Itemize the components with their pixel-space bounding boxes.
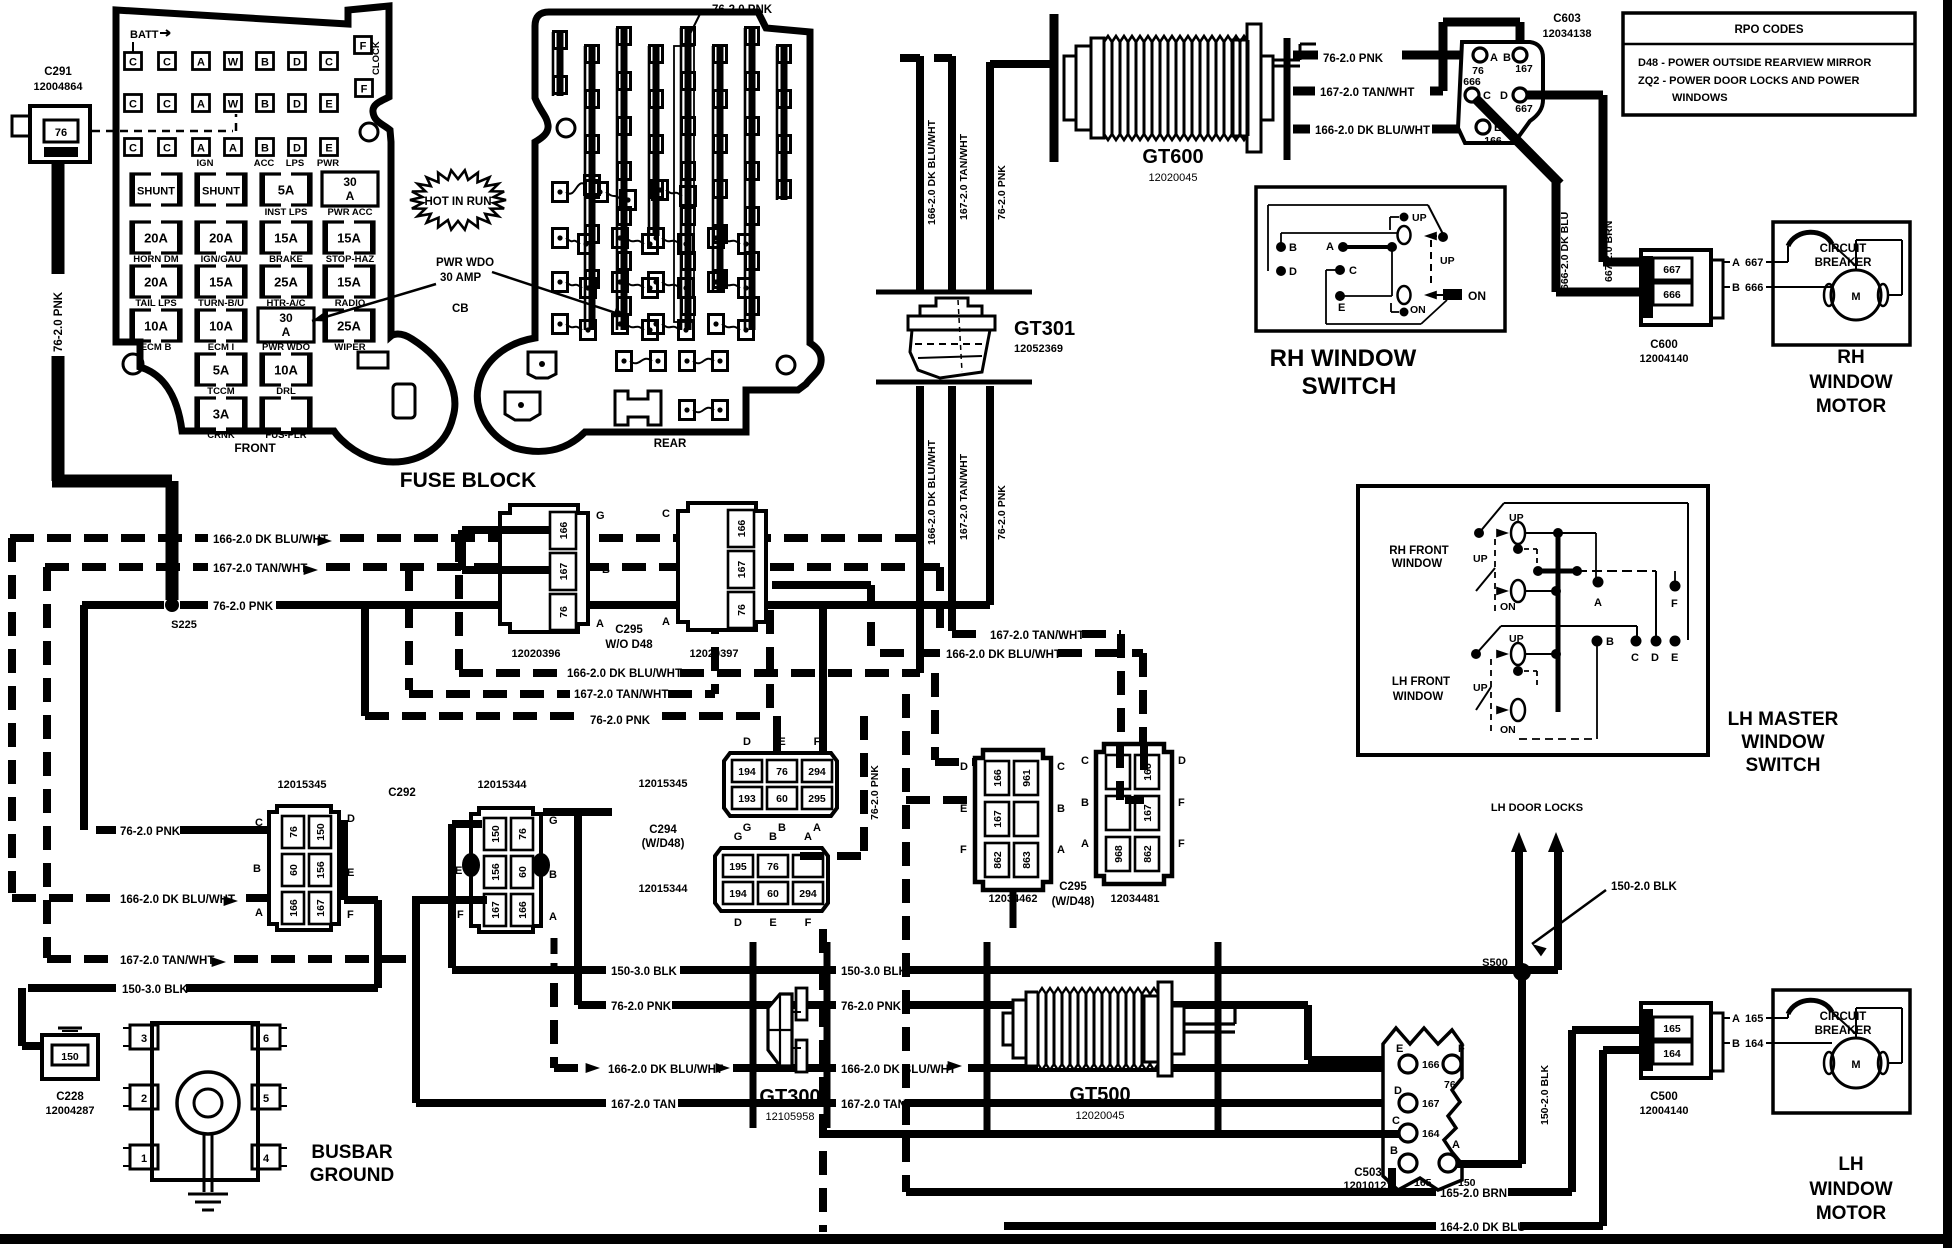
svg-text:UP: UP <box>1473 682 1488 694</box>
svg-text:166: 166 <box>1422 1059 1440 1071</box>
svg-text:BREAKER: BREAKER <box>1815 257 1873 269</box>
svg-text:ON: ON <box>1500 724 1516 736</box>
svg-text:W: W <box>228 99 239 111</box>
svg-text:A: A <box>813 822 821 834</box>
svg-text:SWITCH: SWITCH <box>1746 755 1821 776</box>
svg-text:C: C <box>129 57 137 69</box>
svg-text:2: 2 <box>141 1093 147 1105</box>
svg-text:A: A <box>1326 241 1334 253</box>
svg-text:76-2.0 PNK: 76-2.0 PNK <box>996 485 1008 540</box>
svg-text:GT301: GT301 <box>1014 318 1075 340</box>
svg-text:A: A <box>1732 1013 1740 1025</box>
svg-text:D48 - POWER OUTSIDE REARVIEW M: D48 - POWER OUTSIDE REARVIEW MIRROR <box>1638 57 1871 69</box>
svg-text:ECM B: ECM B <box>141 342 172 353</box>
svg-text:ECM I: ECM I <box>208 342 234 353</box>
svg-text:F: F <box>360 41 367 53</box>
svg-text:E: E <box>1396 1043 1403 1055</box>
svg-text:BREAKER: BREAKER <box>1815 1025 1873 1037</box>
svg-text:3: 3 <box>141 1033 147 1045</box>
svg-text:76-2.0 PNK: 76-2.0 PNK <box>53 291 65 352</box>
svg-text:4: 4 <box>263 1153 270 1165</box>
svg-text:12015344: 12015344 <box>639 883 689 895</box>
svg-text:167: 167 <box>1142 804 1154 822</box>
svg-text:167-2.0 TAN: 167-2.0 TAN <box>611 1099 676 1111</box>
svg-text:F: F <box>1458 1043 1465 1055</box>
svg-text:20A: 20A <box>209 231 233 246</box>
svg-text:E: E <box>455 865 462 877</box>
svg-text:76-2.0 PNK: 76-2.0 PNK <box>996 165 1008 220</box>
svg-text:156: 156 <box>315 861 327 879</box>
svg-text:D: D <box>743 736 751 748</box>
svg-text:C: C <box>1631 652 1639 664</box>
svg-text:A: A <box>346 189 355 203</box>
svg-text:A: A <box>255 907 263 919</box>
svg-text:F: F <box>1671 598 1678 610</box>
svg-text:167: 167 <box>736 561 748 579</box>
svg-text:150: 150 <box>61 1051 79 1063</box>
svg-text:ON: ON <box>1500 601 1516 613</box>
svg-text:76-2.0 PNK: 76-2.0 PNK <box>841 1001 902 1013</box>
svg-text:A: A <box>197 143 205 155</box>
svg-text:12020045: 12020045 <box>1076 1110 1125 1122</box>
svg-text:TAIL LPS: TAIL LPS <box>135 298 176 309</box>
svg-text:862: 862 <box>1142 845 1154 863</box>
svg-text:166: 166 <box>992 769 1004 787</box>
svg-text:BATT: BATT <box>130 29 159 41</box>
svg-text:156: 156 <box>490 863 502 881</box>
svg-text:166-2.0 DK BLU/WHT: 166-2.0 DK BLU/WHT <box>841 1064 956 1076</box>
svg-text:RPO CODES: RPO CODES <box>1734 24 1803 36</box>
svg-text:WINDOW: WINDOW <box>1809 1179 1892 1200</box>
svg-text:E: E <box>1338 302 1345 314</box>
svg-text:3A: 3A <box>213 407 230 422</box>
svg-text:E: E <box>1671 652 1678 664</box>
svg-text:C292: C292 <box>388 787 416 799</box>
svg-text:B: B <box>1503 52 1511 64</box>
svg-text:E: E <box>325 143 332 155</box>
svg-text:166-2.0 DK BLU/WHT: 166-2.0 DK BLU/WHT <box>926 119 938 225</box>
svg-text:G: G <box>596 510 605 522</box>
svg-text:LPS: LPS <box>286 158 304 169</box>
svg-text:IGN: IGN <box>197 158 214 169</box>
svg-text:(W/D48): (W/D48) <box>1052 896 1095 908</box>
svg-text:HORN DM: HORN DM <box>133 254 178 265</box>
svg-text:E: E <box>325 99 332 111</box>
svg-text:167-2.0 TAN: 167-2.0 TAN <box>841 1099 906 1111</box>
svg-text:LH MASTER: LH MASTER <box>1728 709 1839 730</box>
svg-text:12052369: 12052369 <box>1014 343 1063 355</box>
svg-text:167-2.0 TAN/WHT: 167-2.0 TAN/WHT <box>574 689 668 701</box>
svg-text:IGN/GAU: IGN/GAU <box>201 254 242 265</box>
svg-text:C: C <box>163 99 171 111</box>
svg-text:12004864: 12004864 <box>34 81 84 93</box>
svg-text:C: C <box>1349 265 1357 277</box>
svg-text:B: B <box>1289 242 1297 254</box>
svg-text:B: B <box>261 143 269 155</box>
svg-text:RH: RH <box>1837 347 1864 368</box>
svg-text:A: A <box>549 911 557 923</box>
svg-text:20A: 20A <box>144 231 168 246</box>
svg-text:167-2.0 TAN/WHT: 167-2.0 TAN/WHT <box>120 955 214 967</box>
svg-text:12004140: 12004140 <box>1640 353 1689 365</box>
svg-text:666-2.0 DK BLU: 666-2.0 DK BLU <box>1559 212 1571 290</box>
svg-text:D: D <box>1394 1085 1402 1097</box>
svg-text:C: C <box>1057 761 1065 773</box>
svg-text:B: B <box>1732 1038 1740 1050</box>
svg-text:PWR ACC: PWR ACC <box>327 207 372 218</box>
svg-text:164-2.0 DK BLU: 164-2.0 DK BLU <box>1440 1222 1526 1234</box>
svg-text:15A: 15A <box>337 275 361 290</box>
svg-text:150: 150 <box>490 825 502 843</box>
svg-text:5A: 5A <box>213 363 230 378</box>
svg-text:166-2.0 DK BLU/WHT: 166-2.0 DK BLU/WHT <box>567 668 682 680</box>
svg-text:C: C <box>129 99 137 111</box>
svg-text:W/O D48: W/O D48 <box>605 639 653 651</box>
svg-text:294: 294 <box>799 888 817 900</box>
svg-text:B: B <box>1606 636 1614 648</box>
svg-text:C503: C503 <box>1354 1167 1382 1179</box>
svg-text:WINDOWS: WINDOWS <box>1672 92 1728 104</box>
svg-text:76-2.0 PNK: 76-2.0 PNK <box>712 4 773 16</box>
svg-text:G: G <box>734 831 743 843</box>
svg-text:C: C <box>163 143 171 155</box>
svg-text:FUSE BLOCK: FUSE BLOCK <box>400 469 537 492</box>
svg-text:166: 166 <box>288 899 300 917</box>
svg-text:C600: C600 <box>1650 339 1678 351</box>
svg-text:863: 863 <box>1021 851 1033 869</box>
svg-text:UP: UP <box>1509 512 1524 524</box>
svg-text:C295: C295 <box>615 624 643 636</box>
svg-text:12034481: 12034481 <box>1111 893 1160 905</box>
svg-text:60: 60 <box>288 864 300 876</box>
svg-text:B: B <box>253 863 261 875</box>
svg-text:B: B <box>261 57 269 69</box>
svg-text:WINDOW: WINDOW <box>1809 372 1892 393</box>
svg-text:WINDOW: WINDOW <box>1741 732 1824 753</box>
svg-text:C: C <box>129 143 137 155</box>
svg-text:25A: 25A <box>274 275 298 290</box>
svg-text:A: A <box>662 616 670 628</box>
svg-text:150-3.0 BLK: 150-3.0 BLK <box>611 966 678 978</box>
svg-text:D: D <box>734 917 742 929</box>
svg-text:ZQ2 - POWER DOOR LOCKS AND POW: ZQ2 - POWER DOOR LOCKS AND POWER <box>1638 75 1859 87</box>
svg-text:F: F <box>347 909 354 921</box>
svg-text:76-2.0 PNK: 76-2.0 PNK <box>213 601 274 613</box>
svg-text:968: 968 <box>1113 845 1125 863</box>
svg-text:B: B <box>778 822 786 834</box>
svg-text:B: B <box>602 564 610 576</box>
svg-text:A: A <box>1081 838 1089 850</box>
svg-text:666: 666 <box>1663 289 1681 301</box>
svg-text:A: A <box>197 99 205 111</box>
svg-text:A: A <box>229 143 237 155</box>
svg-text:150-3.0 BLK: 150-3.0 BLK <box>841 966 908 978</box>
svg-text:195: 195 <box>729 861 747 873</box>
svg-text:RH WINDOW: RH WINDOW <box>1270 345 1417 372</box>
svg-text:166: 166 <box>1484 135 1502 147</box>
svg-text:166-2.0 DK BLU/WHT: 166-2.0 DK BLU/WHT <box>1315 125 1430 137</box>
svg-text:76-2.0 PNK: 76-2.0 PNK <box>590 715 651 727</box>
svg-text:PWR: PWR <box>317 158 339 169</box>
svg-text:FUS-PLR: FUS-PLR <box>265 430 306 441</box>
svg-text:LH DOOR LOCKS: LH DOOR LOCKS <box>1491 802 1583 814</box>
svg-text:1: 1 <box>141 1153 147 1165</box>
svg-text:12015345: 12015345 <box>278 779 327 791</box>
svg-text:165: 165 <box>1663 1023 1681 1035</box>
svg-text:76: 76 <box>558 606 570 618</box>
svg-text:167-2.0 TAN/WHT: 167-2.0 TAN/WHT <box>990 630 1084 642</box>
svg-text:A: A <box>804 831 812 843</box>
svg-text:167-2.0 TAN/WHT: 167-2.0 TAN/WHT <box>958 453 970 540</box>
svg-text:166: 166 <box>517 901 529 919</box>
svg-text:DRL: DRL <box>276 386 296 397</box>
svg-text:166-2.0 DK BLU/WHT: 166-2.0 DK BLU/WHT <box>608 1064 723 1076</box>
svg-text:FRONT: FRONT <box>234 441 276 455</box>
svg-text:12034138: 12034138 <box>1543 28 1592 40</box>
svg-text:193: 193 <box>738 793 756 805</box>
svg-text:15A: 15A <box>209 275 233 290</box>
svg-text:666: 666 <box>1745 282 1763 294</box>
svg-text:194: 194 <box>738 766 756 778</box>
svg-text:RH FRONT: RH FRONT <box>1389 545 1448 557</box>
svg-text:F: F <box>457 909 464 921</box>
svg-text:UP: UP <box>1412 212 1427 224</box>
svg-text:20A: 20A <box>144 275 168 290</box>
svg-text:5: 5 <box>263 1093 269 1105</box>
svg-text:GT300: GT300 <box>759 1086 820 1108</box>
svg-text:GROUND: GROUND <box>310 1165 394 1186</box>
svg-text:B: B <box>1732 282 1740 294</box>
svg-text:167: 167 <box>490 901 502 919</box>
svg-text:A: A <box>282 325 291 339</box>
svg-text:B: B <box>1390 1145 1398 1157</box>
svg-text:167: 167 <box>1422 1098 1440 1110</box>
svg-text:76-2.0 PNK: 76-2.0 PNK <box>120 826 181 838</box>
svg-text:D: D <box>1289 266 1297 278</box>
svg-text:165: 165 <box>1414 1177 1432 1189</box>
svg-text:A: A <box>1057 844 1065 856</box>
svg-text:166-2.0 DK BLU/WHT: 166-2.0 DK BLU/WHT <box>946 649 1061 661</box>
svg-text:MOTOR: MOTOR <box>1816 1203 1887 1224</box>
svg-text:76: 76 <box>1444 1079 1456 1091</box>
svg-text:BUSBAR: BUSBAR <box>311 1142 393 1163</box>
svg-text:F: F <box>805 917 812 929</box>
svg-text:164: 164 <box>1663 1048 1681 1060</box>
svg-text:12020396: 12020396 <box>512 648 561 660</box>
svg-text:167-2.0 TAN/WHT: 167-2.0 TAN/WHT <box>213 563 307 575</box>
svg-text:B: B <box>261 99 269 111</box>
svg-text:30: 30 <box>343 175 357 189</box>
svg-text:12015345: 12015345 <box>639 778 688 790</box>
svg-text:B: B <box>662 562 670 574</box>
svg-text:C294: C294 <box>649 824 677 836</box>
svg-text:150-2.0 BLK: 150-2.0 BLK <box>1611 881 1678 893</box>
svg-text:INST LPS: INST LPS <box>265 207 308 218</box>
svg-text:B: B <box>549 869 557 881</box>
svg-text:5A: 5A <box>278 183 295 198</box>
svg-text:ON: ON <box>1468 289 1486 303</box>
svg-text:76-2.0 PNK: 76-2.0 PNK <box>611 1001 672 1013</box>
svg-text:164: 164 <box>1422 1128 1440 1140</box>
svg-text:76-2.0 PNK: 76-2.0 PNK <box>869 765 881 820</box>
svg-text:C603: C603 <box>1553 13 1581 25</box>
svg-text:A: A <box>197 57 205 69</box>
svg-text:M: M <box>1851 1059 1860 1071</box>
svg-text:W: W <box>228 57 239 69</box>
svg-text:10A: 10A <box>209 319 233 334</box>
svg-text:667: 667 <box>1745 257 1763 269</box>
svg-text:MOTOR: MOTOR <box>1816 396 1887 417</box>
svg-text:164: 164 <box>1745 1038 1764 1050</box>
svg-text:D: D <box>293 143 301 155</box>
svg-text:667: 667 <box>1515 103 1533 115</box>
svg-text:30 AMP: 30 AMP <box>440 272 481 284</box>
svg-text:150-3.0 BLK: 150-3.0 BLK <box>122 984 189 996</box>
svg-text:LH: LH <box>1838 1154 1863 1175</box>
svg-text:UP: UP <box>1509 633 1524 645</box>
svg-text:76: 76 <box>517 828 529 840</box>
svg-text:CRNK: CRNK <box>207 430 235 441</box>
svg-text:C500: C500 <box>1650 1091 1678 1103</box>
svg-text:WIPER: WIPER <box>334 342 365 353</box>
svg-text:G: G <box>743 822 752 834</box>
svg-text:SHUNT: SHUNT <box>202 186 240 198</box>
svg-text:12004287: 12004287 <box>46 1105 95 1117</box>
svg-text:15A: 15A <box>337 231 361 246</box>
svg-text:STOP-HAZ: STOP-HAZ <box>326 254 375 265</box>
svg-text:D: D <box>347 813 355 825</box>
svg-text:D: D <box>293 57 301 69</box>
svg-text:166: 166 <box>558 522 570 540</box>
svg-text:ACC: ACC <box>254 158 275 169</box>
svg-text:12105958: 12105958 <box>766 1111 815 1123</box>
svg-text:D: D <box>293 99 301 111</box>
svg-text:167: 167 <box>315 899 327 917</box>
svg-text:G: G <box>549 815 558 827</box>
svg-text:S225: S225 <box>171 619 197 631</box>
svg-text:GT500: GT500 <box>1069 1084 1130 1106</box>
svg-text:B: B <box>1057 803 1065 815</box>
svg-text:WINDOW: WINDOW <box>1393 691 1444 703</box>
svg-text:10A: 10A <box>144 319 168 334</box>
svg-text:SHUNT: SHUNT <box>137 186 175 198</box>
svg-text:CLOCK: CLOCK <box>371 41 382 75</box>
svg-text:ON: ON <box>1410 304 1426 316</box>
svg-text:D: D <box>960 761 968 773</box>
svg-text:B: B <box>1081 797 1089 809</box>
svg-text:666: 666 <box>1463 76 1481 88</box>
svg-text:UP: UP <box>1473 553 1488 565</box>
svg-text:165-2.0 BRN: 165-2.0 BRN <box>1440 1188 1507 1200</box>
svg-text:667-2.0 BRN: 667-2.0 BRN <box>1603 221 1615 282</box>
svg-text:A: A <box>596 618 604 630</box>
svg-text:CB: CB <box>452 303 469 315</box>
svg-text:GT600: GT600 <box>1142 146 1203 168</box>
svg-text:D: D <box>1500 90 1508 102</box>
svg-text:166: 166 <box>736 520 748 538</box>
svg-text:F: F <box>1178 838 1185 850</box>
svg-text:SWITCH: SWITCH <box>1302 373 1397 400</box>
svg-text:30: 30 <box>279 311 293 325</box>
svg-text:A: A <box>1490 52 1498 64</box>
svg-text:C: C <box>325 57 333 69</box>
svg-text:76: 76 <box>288 826 300 838</box>
svg-text:12020045: 12020045 <box>1149 172 1198 184</box>
svg-text:UP: UP <box>1440 255 1455 267</box>
svg-text:194: 194 <box>729 888 747 900</box>
svg-text:F: F <box>361 84 368 96</box>
svg-text:167: 167 <box>1515 63 1533 75</box>
svg-text:TURN-B/U: TURN-B/U <box>198 298 244 309</box>
svg-text:TCCM: TCCM <box>207 386 235 397</box>
svg-text:E: E <box>769 917 776 929</box>
svg-text:166-2.0 DK BLU/WHT: 166-2.0 DK BLU/WHT <box>926 439 938 545</box>
svg-text:REAR: REAR <box>654 438 687 450</box>
svg-text:76: 76 <box>767 861 779 873</box>
svg-text:B: B <box>769 831 777 843</box>
svg-text:C: C <box>1392 1115 1400 1127</box>
svg-text:60: 60 <box>767 888 779 900</box>
svg-text:167-2.0 TAN/WHT: 167-2.0 TAN/WHT <box>958 133 970 220</box>
svg-text:76: 76 <box>776 766 788 778</box>
svg-text:165: 165 <box>1745 1013 1763 1025</box>
svg-text:167: 167 <box>558 563 570 581</box>
svg-text:C291: C291 <box>44 66 72 78</box>
svg-text:E: E <box>960 803 967 815</box>
svg-text:60: 60 <box>776 793 788 805</box>
svg-text:12004140: 12004140 <box>1640 1105 1689 1117</box>
svg-text:15A: 15A <box>274 231 298 246</box>
svg-text:60: 60 <box>517 866 529 878</box>
svg-text:C228: C228 <box>56 1091 84 1103</box>
svg-text:C295: C295 <box>1059 881 1087 893</box>
svg-text:6: 6 <box>263 1033 269 1045</box>
svg-text:76: 76 <box>55 127 67 139</box>
svg-text:PWR WDO: PWR WDO <box>262 342 310 353</box>
svg-text:12015344: 12015344 <box>478 779 528 791</box>
svg-text:150-2.0 BLK: 150-2.0 BLK <box>1539 1064 1551 1125</box>
svg-text:862: 862 <box>992 851 1004 869</box>
svg-text:667: 667 <box>1663 264 1681 276</box>
svg-text:167: 167 <box>992 810 1004 828</box>
svg-text:BRAKE: BRAKE <box>269 254 303 265</box>
svg-text:166-2.0 DK BLU/WHT: 166-2.0 DK BLU/WHT <box>213 534 328 546</box>
svg-text:A: A <box>1732 257 1740 269</box>
svg-text:C: C <box>662 508 670 520</box>
svg-text:294: 294 <box>808 766 826 778</box>
svg-text:F: F <box>1178 797 1185 809</box>
svg-text:166-2.0 DK BLU/WHT: 166-2.0 DK BLU/WHT <box>120 894 235 906</box>
svg-text:76: 76 <box>736 604 748 616</box>
svg-text:(W/D48): (W/D48) <box>642 838 685 850</box>
svg-text:150: 150 <box>315 823 327 841</box>
svg-text:D: D <box>1178 755 1186 767</box>
svg-text:D: D <box>1651 652 1659 664</box>
svg-text:C: C <box>163 57 171 69</box>
svg-text:A: A <box>1452 1139 1460 1151</box>
svg-text:76-2.0 PNK: 76-2.0 PNK <box>1323 53 1384 65</box>
svg-text:LH FRONT: LH FRONT <box>1392 676 1450 688</box>
svg-text:C: C <box>1081 755 1089 767</box>
svg-text:HOT IN RUN: HOT IN RUN <box>424 196 491 208</box>
svg-text:F: F <box>960 844 967 856</box>
svg-text:10A: 10A <box>274 363 298 378</box>
svg-text:A: A <box>1594 597 1602 609</box>
svg-text:E: E <box>347 867 354 879</box>
svg-text:WINDOW: WINDOW <box>1392 558 1443 570</box>
svg-text:295: 295 <box>808 793 826 805</box>
svg-text:12020397: 12020397 <box>690 648 739 660</box>
